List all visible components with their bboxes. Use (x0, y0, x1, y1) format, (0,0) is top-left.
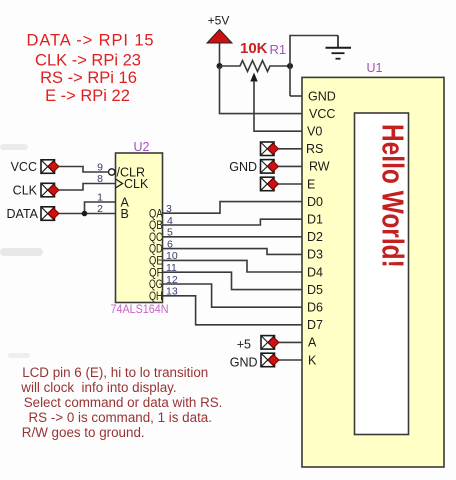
wire QB pin 4 to D1 (163, 219, 303, 225)
svg-text:D1: D1 (307, 213, 323, 227)
svg-text:9: 9 (97, 162, 103, 174)
svg-text:+5: +5 (237, 338, 251, 352)
svg-text:R/W goes to ground.: R/W goes to ground. (22, 425, 145, 440)
svg-text:E -> RPi 22: E -> RPi 22 (45, 87, 130, 105)
svg-text:3: 3 (166, 203, 172, 215)
svg-text:K: K (308, 353, 317, 367)
svg-text:CLK -> RPi 23: CLK -> RPi 23 (35, 51, 141, 69)
svg-text:Select command or data with RS: Select command or data with RS. (24, 395, 223, 410)
svg-text:13: 13 (166, 286, 178, 298)
svg-text:QH: QH (149, 289, 163, 303)
svg-text:D5: D5 (307, 283, 323, 297)
svg-text:B: B (121, 207, 129, 221)
IC U1 LCD module (302, 61, 444, 467)
scan artifact streaks (decorative) (0, 144, 43, 358)
svg-text:D7: D7 (307, 318, 323, 332)
wire V0 pin of U1 to R1 wiper (254, 81, 302, 131)
svg-text:4: 4 (167, 215, 173, 227)
note: RPi pin mapping text (27, 32, 155, 106)
port K (GND) (230, 353, 279, 369)
svg-text:DATA -> RPI 15: DATA -> RPI 15 (27, 32, 155, 50)
svg-text:D4: D4 (307, 265, 323, 279)
wire QC pin 5 to D2 (163, 236, 303, 238)
wire QF pin 11 to D5 (163, 272, 303, 289)
wire RS port to U1 (279, 148, 303, 150)
wire GND pin of U1 (290, 95, 302, 97)
svg-text:GND: GND (230, 356, 258, 370)
wire QA pin 3 to D0 (163, 202, 303, 214)
svg-text:10: 10 (166, 250, 178, 262)
inversion bubble pin 9 (109, 169, 115, 175)
svg-text:V0: V0 (307, 125, 322, 139)
svg-text:VCC: VCC (11, 160, 37, 174)
svg-text:E: E (307, 177, 315, 191)
wire K port to U1 (279, 359, 302, 361)
wire junction to A pin 1 (85, 202, 116, 214)
svg-text:A: A (308, 336, 317, 350)
svg-text:RS -> RPi 16: RS -> RPi 16 (40, 69, 137, 87)
svg-text:8: 8 (97, 173, 103, 185)
svg-text:5: 5 (167, 227, 173, 239)
svg-text:R1: R1 (270, 42, 287, 57)
junction node DATA A/B (82, 211, 88, 217)
LCD display window (355, 113, 409, 435)
wire DATA port to B pin 2 (59, 213, 116, 215)
wire QG pin 12 to D6 (163, 284, 303, 307)
svg-text:D3: D3 (307, 248, 323, 262)
svg-text:VCC: VCC (309, 107, 335, 121)
wire QE pin 10 to D4 (163, 260, 303, 272)
svg-text:GND: GND (308, 89, 336, 103)
svg-text:11: 11 (166, 262, 177, 274)
svg-text:RS -> 0 is command, 1 is data.: RS -> 0 is command, 1 is data. (29, 410, 212, 425)
wire R1 right junction up to ground and down to GND pin (290, 36, 338, 97)
svg-text:12: 12 (166, 274, 178, 286)
svg-text:CLK: CLK (124, 177, 149, 191)
resistor R1 10K potentiometer (220, 40, 291, 82)
wire +5V to junction (219, 42, 221, 66)
port E (261, 177, 279, 191)
svg-text:CLK: CLK (13, 183, 38, 197)
port RS (261, 142, 279, 156)
svg-text:74ALS164N: 74ALS164N (111, 302, 169, 316)
LCD text Hello World! (376, 124, 410, 268)
wire VCC pin of U1 to +5V rail (220, 66, 303, 114)
svg-text:LCD pin 6 (E), hi to lo transi: LCD pin 6 (E), hi to lo transition (22, 365, 208, 380)
wire A port to U1 (279, 341, 302, 343)
svg-text:D2: D2 (307, 230, 323, 244)
svg-text:will clock info into display.: will clock info into display. (20, 380, 176, 395)
svg-text:1: 1 (97, 192, 103, 204)
wire CLK port to CLK pin 8 (59, 184, 116, 191)
svg-text:U1: U1 (367, 61, 383, 75)
IC U2 74ALS164N shift register (109, 140, 169, 316)
svg-text:D0: D0 (307, 195, 323, 209)
clock wedge pin 8 (116, 179, 123, 188)
power +5V symbol (207, 14, 232, 44)
port A (+5) (237, 336, 279, 352)
svg-text:6: 6 (167, 238, 173, 250)
svg-text:RS: RS (306, 142, 323, 156)
wire RW port to U1 (279, 165, 303, 167)
port RW (GND) (229, 160, 278, 175)
svg-text:2: 2 (97, 203, 103, 215)
note: LCD usage text (20, 365, 222, 440)
wire QH pin 13 to D7 (163, 296, 303, 325)
port VCC (11, 160, 59, 174)
svg-text:D6: D6 (307, 301, 323, 315)
port DATA (7, 207, 59, 221)
wire QD pin 6 to D3 (163, 249, 303, 255)
svg-text:RW: RW (309, 160, 330, 174)
junction node +5V / R1 left (217, 63, 223, 69)
svg-text:DATA: DATA (7, 207, 39, 221)
port CLK (13, 183, 59, 197)
junction node R1 right (287, 63, 293, 69)
svg-text:U2: U2 (134, 140, 150, 154)
svg-text:10K: 10K (240, 40, 268, 57)
ground symbol (326, 36, 352, 59)
svg-text:+5V: +5V (208, 14, 230, 28)
svg-text:GND: GND (229, 160, 257, 174)
wire E port to U1 (279, 183, 303, 185)
wire VCC port to /CLR pin 9 (59, 167, 109, 173)
svg-text:Hello World!: Hello World! (376, 124, 410, 268)
